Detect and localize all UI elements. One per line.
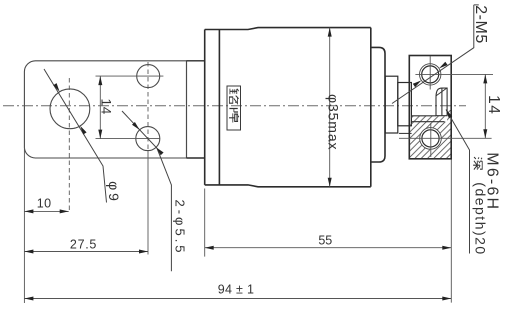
svg-text:55: 55: [318, 233, 332, 247]
svg-text:2-φ5.5: 2-φ5.5: [173, 199, 188, 255]
svg-text:(depth)20: (depth)20: [473, 182, 489, 255]
svg-text:14: 14: [99, 98, 114, 115]
svg-text:φ35max: φ35max: [326, 94, 342, 151]
svg-text:10: 10: [37, 197, 52, 211]
svg-text:φ9: φ9: [106, 181, 122, 204]
svg-text:14: 14: [485, 95, 502, 115]
svg-text:94 ± 1: 94 ± 1: [218, 282, 254, 296]
svg-text:2-M5: 2-M5: [472, 5, 489, 43]
svg-text:27.5: 27.5: [70, 238, 97, 252]
